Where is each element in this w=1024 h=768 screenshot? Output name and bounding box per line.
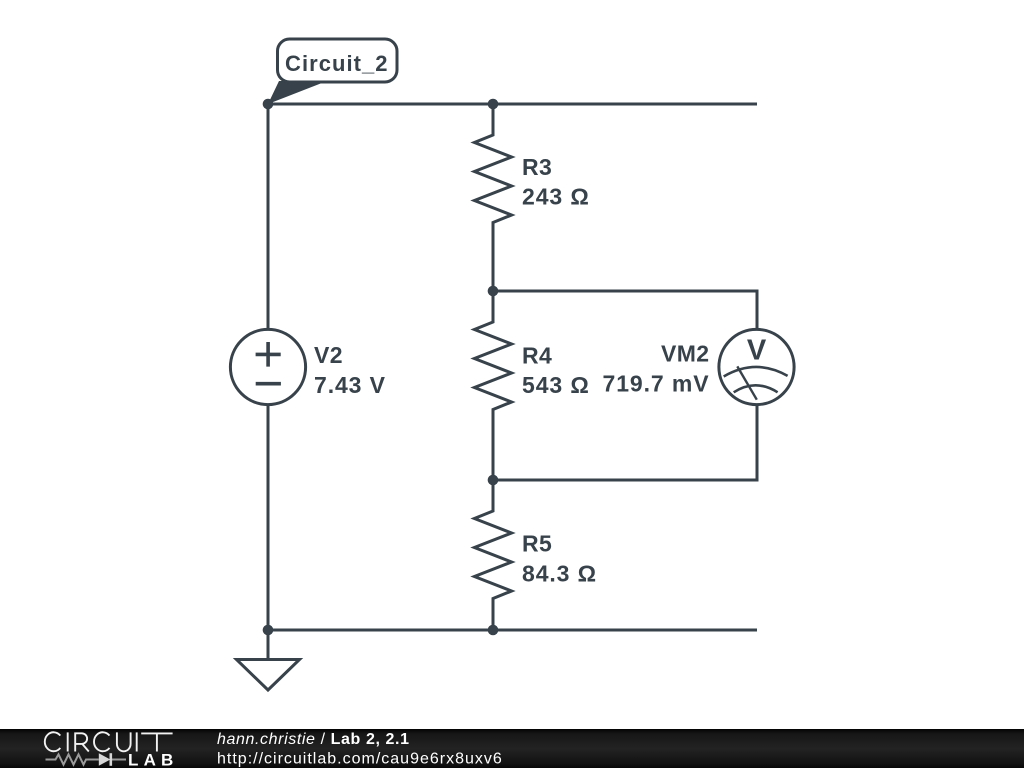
ground [237,630,300,690]
junction node bottom R5 [488,625,499,636]
wire left branch upper [267,104,270,329]
svg-text:LAB: LAB [128,751,179,768]
junction node top R3 [488,99,499,110]
svg-text:243 Ω: 243 Ω [522,184,590,210]
logo schematic squiggle [46,754,127,764]
svg-text:V2: V2 [314,342,343,368]
svg-text:84.3 Ω: 84.3 Ω [522,561,597,587]
svg-text:VM2: VM2 [661,341,710,367]
junction node bottom-left [263,625,274,636]
wire voltmeter bottom [493,405,757,480]
voltage source V2 [230,329,305,404]
logo diode [99,753,111,766]
svg-text:543 Ω: 543 Ω [522,372,590,398]
voltmeter VM2 [719,329,794,404]
logo CIRCUIT [45,732,173,751]
svg-text:7.43 V: 7.43 V [314,372,386,398]
svg-text:http://circuitlab.com/cau9e6rx: http://circuitlab.com/cau9e6rx8uxv6 [217,751,503,768]
svg-text:R4: R4 [522,343,552,369]
svg-text:R5: R5 [522,531,552,557]
annotation tail [268,81,327,104]
junction node R3/R4 [488,286,499,297]
svg-text:Circuit_2: Circuit_2 [285,51,389,76]
footer bar [0,729,1024,768]
wire bottom rail [268,629,757,632]
svg-text:R3: R3 [522,154,552,180]
svg-text:V: V [747,335,767,367]
wire left branch lower [267,405,270,630]
wire voltmeter top [493,291,757,329]
annotation bubble Circuit_2 [278,39,398,82]
resistor R4 [474,291,511,480]
svg-text:hann.christie / Lab 2, 2.1: hann.christie / Lab 2, 2.1 [217,731,410,748]
wire top rail [268,103,757,106]
junction node top-left [263,99,274,110]
resistor R5 [474,480,511,630]
svg-text:719.7 mV: 719.7 mV [603,371,710,397]
junction node R4/R5 [488,475,499,486]
resistor R3 [474,104,511,291]
